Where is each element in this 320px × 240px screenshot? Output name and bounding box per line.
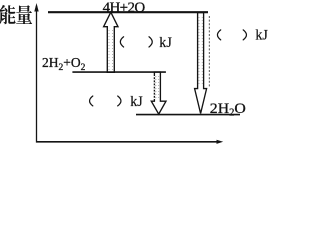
svg-text:4H+2O: 4H+2O	[103, 0, 146, 16]
svg-text:kJ: kJ	[255, 28, 268, 44]
svg-text:kJ: kJ	[130, 94, 143, 110]
svg-text:kJ: kJ	[159, 35, 172, 51]
svg-text:2H2+O2: 2H2+O2	[42, 55, 86, 73]
svg-text:2H2O: 2H2O	[210, 101, 246, 119]
